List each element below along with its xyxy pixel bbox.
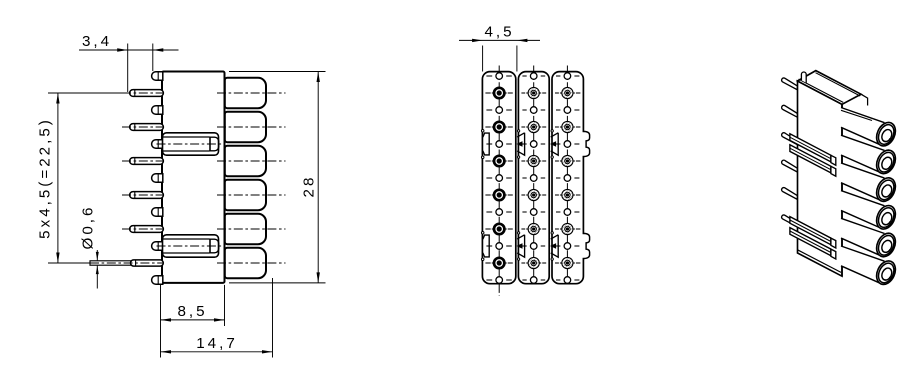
PCB pin 4 (3D view) [782, 160, 798, 172]
PCB pin 3 (3D view) [782, 133, 798, 145]
guide hole module 1 row 4 [486, 175, 511, 182]
guide hole module 2 row 1 [522, 73, 545, 80]
contact bushing 3 (3D view) [841, 163, 899, 204]
module 1 interlock notch at y=144 [481, 130, 489, 159]
guide hole module 2 row 4 [522, 175, 545, 182]
pole module 3 housing (front view) [552, 72, 583, 284]
PCB pin 2 (3D view) [782, 105, 798, 117]
contact sleeve row 5 (side view) [225, 214, 266, 244]
contact bushing 5 (3D view) [841, 218, 899, 259]
svg-text:14,7: 14,7 [196, 335, 238, 352]
coding pin on top face (3D view) [801, 72, 806, 83]
upper retaining rail (3D view) [790, 134, 836, 176]
vertical centerline module 3 [566, 66, 568, 284]
solder pin row 5 (side view) [122, 226, 164, 233]
contact socket module 2 row 1 [521, 87, 546, 98]
solder pin row 3 (side view) [122, 158, 164, 165]
connector body top face (3D view) [798, 71, 862, 105]
dimension 5x4,5(=22,5) (row pitch) [37, 93, 127, 263]
module 3 outer interlock hook at y=144 [582, 131, 589, 156]
guide hole module 1 row 6 [486, 243, 511, 250]
body bottom chamfer edge (3D view) [798, 250, 842, 273]
module 3 interlock dovetail at y=144 [551, 130, 559, 159]
guide hole module 3 row 4 [556, 175, 579, 182]
guide hole module 2 row 5 [522, 209, 545, 216]
short contact pin 2 (side view) [152, 106, 163, 114]
contact socket module 3 row 4 [555, 189, 580, 200]
guide hole module 2 row 7 [522, 277, 545, 284]
PCB pin 1 (3D view) [782, 78, 798, 90]
centerline contact row 2 (side view) [217, 126, 286, 128]
guide hole module 2 row 6 [522, 243, 545, 250]
dimension 14,7 (overall depth) [161, 278, 273, 358]
contact socket module 2 row 3 [521, 155, 546, 166]
centerline contact row 4 (side view) [217, 194, 286, 196]
contact socket module 3 row 2 [555, 121, 580, 132]
connector body (side view) [162, 72, 225, 283]
dimension 28 (body height) [229, 72, 326, 283]
solder pin row 2 (side view) [122, 124, 164, 131]
pole module 1 housing (front view) [482, 72, 515, 284]
solder pin row 6 with 0.6mm wire (side view) [48, 260, 164, 266]
contact socket module 2 row 4 [521, 189, 546, 200]
centerline contact row 3 (side view) [217, 160, 286, 162]
short contact pin 5 (side view) [152, 208, 163, 216]
svg-text:5x4,5(=22,5): 5x4,5(=22,5) [37, 117, 54, 239]
PCB pin 5 (3D view) [782, 188, 798, 200]
short contact pin 4 (side view) [152, 174, 163, 182]
dimension 3,4 (pin offset) [79, 33, 179, 92]
short contact pin 3 (side view) [152, 140, 163, 148]
contact bushing 2 (3D view) [841, 135, 899, 176]
pole module 2 housing (front view) [518, 72, 549, 284]
contact sleeve row 4 (side view) [225, 180, 266, 210]
guide hole module 1 row 1 [486, 73, 511, 80]
centerline contact row 1 (side view) [217, 92, 286, 94]
contact socket module 3 row 5 [555, 223, 580, 234]
svg-text:4,5: 4,5 [484, 24, 514, 41]
contact socket module 1 row 3 [485, 156, 512, 166]
guide hole module 2 row 2 [522, 107, 545, 114]
dimension 8,5 (body width) [161, 285, 225, 358]
module 3 interlock dovetail at y=246 [551, 232, 559, 261]
contact socket module 3 row 6 [555, 257, 580, 268]
dimension 4,5 (module width) [459, 24, 540, 72]
guide hole module 2 row 3 [522, 141, 545, 148]
guide hole module 3 row 6 [556, 243, 579, 250]
solder pin row 1 (side view) [122, 90, 164, 97]
contact bushing 1 (3D view) [841, 108, 899, 149]
top face back chamfer line (3D view) [816, 73, 861, 96]
contact socket module 1 row 4 [485, 190, 512, 200]
contact sleeve row 2 (side view) [225, 112, 266, 142]
body back-right corner step (3D view) [861, 94, 868, 105]
contact socket module 2 row 5 [521, 223, 546, 234]
guide hole module 1 row 2 [486, 107, 511, 114]
guide hole module 1 row 7 [486, 277, 511, 284]
svg-text:28: 28 [301, 175, 318, 198]
contact socket module 1 row 5 [485, 224, 512, 234]
lower retaining rail (3D view) [790, 217, 836, 259]
top face front chamfer line (3D view) [799, 79, 844, 102]
PCB pin 6 (3D view) [782, 215, 798, 227]
module 1 interlock notch at y=246 [481, 232, 489, 261]
contact socket module 1 row 2 [485, 122, 512, 132]
module 2 interlock dovetail at y=246 [517, 232, 525, 261]
solder pin row 4 (side view) [122, 192, 164, 199]
guide hole module 3 row 5 [556, 209, 579, 216]
module 2 interlock dovetail at y=144 [517, 130, 525, 159]
contact socket module 1 row 6 [485, 258, 512, 268]
guide hole module 3 row 3 [556, 141, 579, 148]
contact socket module 3 row 3 [555, 155, 580, 166]
guide hole module 3 row 2 [556, 107, 579, 114]
vertical centerline module 2 [533, 66, 535, 284]
contact socket module 2 row 2 [521, 121, 546, 132]
contact bushing 4 (3D view) [841, 191, 899, 232]
svg-text:3,4: 3,4 [82, 33, 112, 50]
svg-text:Ø0,6: Ø0,6 [80, 205, 97, 250]
connector body front face (3D view) [798, 81, 843, 276]
short contact pin 7 (side view) [152, 276, 163, 284]
centerline contact row 6 (side view) [217, 262, 286, 264]
guide hole module 3 row 7 [556, 277, 579, 284]
guide hole module 1 row 5 [486, 209, 511, 216]
contact sleeve row 1 (side view) [225, 78, 266, 108]
body front-right edge (3D view) [841, 104, 843, 276]
guide hole module 3 row 1 [556, 73, 579, 80]
short contact pin 6 (side view) [152, 242, 163, 250]
contact socket module 3 row 1 [555, 87, 580, 98]
vertical centerline module 1 [498, 66, 500, 297]
retaining rail (side view) at y=246 [157, 235, 223, 257]
contact socket module 2 row 6 [521, 257, 546, 268]
contact sleeve row 3 (side view) [225, 146, 266, 176]
contact sleeve row 6 (side view) [225, 248, 266, 278]
guide hole module 1 row 3 [486, 141, 511, 148]
retaining rail (side view) at y=144 [157, 133, 223, 155]
contact socket module 1 row 1 [485, 88, 512, 98]
dimension diameter 0,6 (pin) [80, 205, 99, 289]
short contact pin 1 (side view) [152, 72, 163, 80]
svg-text:8,5: 8,5 [177, 303, 207, 320]
module 3 outer interlock hook at y=246 [582, 233, 589, 258]
centerline contact row 5 (side view) [217, 228, 286, 230]
contact bushing 6 (3D view) [841, 246, 899, 287]
